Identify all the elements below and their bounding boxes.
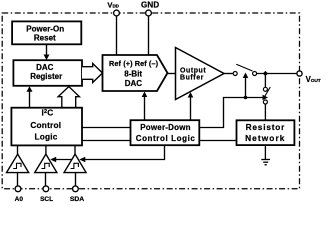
svg-text:VOUT: VOUT <box>306 75 321 84</box>
wire DAC output to buffer input <box>168 73 176 75</box>
switch SW1 (output switch) <box>233 64 256 75</box>
wire I2C logic to power-down logic (lower) <box>82 140 131 142</box>
pin VOUT terminal <box>297 71 302 76</box>
svg-text:GND: GND <box>141 0 159 9</box>
bus arrow I2C logic to DAC Register (open block arrow) <box>58 87 79 108</box>
control wire power-down to 8-bit DAC with arrow <box>142 92 148 121</box>
switch SW2 (to resistor network) <box>263 74 270 121</box>
svg-text:Network: Network <box>245 133 285 143</box>
wire I2C logic to A0 buffer <box>17 145 19 154</box>
wire SW1 to VOUT node <box>257 73 300 75</box>
node control branch <box>244 96 248 100</box>
pin GND terminal <box>146 10 152 55</box>
pin VDD terminal <box>114 10 120 55</box>
ground <box>261 145 270 165</box>
svg-text:Resistor: Resistor <box>246 122 286 132</box>
wire SDA buffer to pin <box>75 173 77 186</box>
svg-text:DAC: DAC <box>36 63 54 72</box>
svg-text:SCL: SCL <box>40 196 53 203</box>
chip boundary (dash-dot border) <box>2 13 299 189</box>
op-amp Output Buffer <box>176 48 225 100</box>
wire I2C logic to power-down logic (upper) <box>82 127 131 129</box>
buffer U1 (A0 Schmitt trigger) <box>7 154 29 173</box>
svg-text:Control: Control <box>30 120 61 130</box>
block Power-Down Control Logic <box>131 120 200 145</box>
wire A0 buffer to pin <box>17 173 19 186</box>
svg-text:Ref (+) Ref (–): Ref (+) Ref (–) <box>109 59 159 68</box>
svg-text:SDA: SDA <box>70 196 84 203</box>
wire SCL buffer to pin <box>45 173 47 186</box>
pin A0 terminal <box>15 186 21 192</box>
node junction at VOUT rail <box>263 71 268 76</box>
control wire segment SDA buffer to SCL buffer <box>50 157 71 163</box>
wire power-down logic to resistor network <box>199 140 236 142</box>
wire POR to DAC Register with arrow <box>44 44 50 60</box>
svg-text:VDD: VDD <box>107 0 119 9</box>
wire I2C logic to SDA buffer <box>74 145 76 154</box>
svg-text:A0: A0 <box>15 196 24 203</box>
wire I2C logic to SCL buffer <box>45 145 47 154</box>
control arrow to SW1 <box>243 73 249 98</box>
svg-text:Buffer: Buffer <box>180 75 204 82</box>
wire I2C logic to DAC Register with arrow <box>27 86 33 107</box>
control wire power-down to switches <box>199 95 268 128</box>
svg-text:I2C: I2C <box>42 108 54 118</box>
block Power-On Reset <box>12 21 81 44</box>
block 8-bit DAC <box>103 55 168 91</box>
block DAC Register <box>13 60 82 86</box>
buffer U3 (SDA Schmitt trigger) <box>64 154 86 173</box>
svg-text:Register: Register <box>30 72 62 81</box>
svg-text:Logic: Logic <box>34 132 57 142</box>
svg-text:8-Bit: 8-Bit <box>124 69 142 78</box>
bus arrow DAC Register to 8-bit DAC (open block arrow) <box>82 64 103 83</box>
svg-text:DAC: DAC <box>125 79 143 88</box>
control wire power-down to input buffers <box>79 145 164 162</box>
svg-text:Control Logic: Control Logic <box>136 134 196 143</box>
block Resistor Network <box>237 120 295 145</box>
control wire power-down to output buffer with arrow <box>188 92 194 120</box>
pin SCL terminal <box>43 186 49 192</box>
svg-text:Power-On: Power-On <box>26 25 64 34</box>
buffer U2 (SCL Schmitt trigger) <box>35 154 57 173</box>
wire buffer output to switch SW1 <box>224 73 233 75</box>
svg-text:Reset: Reset <box>34 33 56 42</box>
block I2C Control Logic <box>11 108 82 146</box>
svg-text:Power-Down: Power-Down <box>140 123 190 132</box>
pin SDA terminal <box>73 186 79 192</box>
